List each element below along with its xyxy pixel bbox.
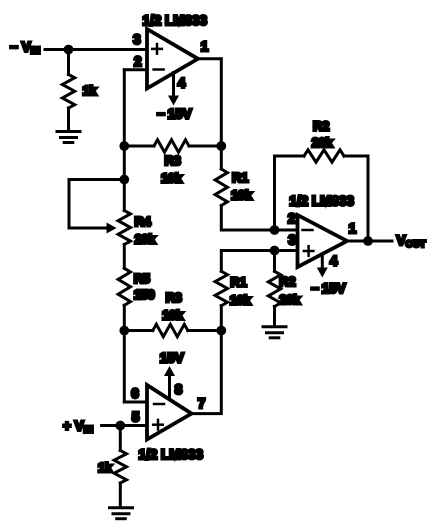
ground (top 1k) — [57, 132, 80, 143]
resistor R1 (lower) — [215, 271, 227, 305]
pin 4 label (right) — [330, 254, 338, 269]
resistor R3 (bottom) — [124, 324, 221, 336]
label 10k (R1 lower) — [230, 293, 252, 308]
svg-text:− VIN: − VIN — [10, 40, 40, 57]
label 15V — [160, 351, 184, 366]
label R5 — [134, 271, 150, 286]
junction output — [363, 236, 373, 246]
svg-text:5: 5 — [132, 410, 140, 425]
op-amp A3 triangle — [147, 385, 192, 440]
label 1/2 LM833 (top) — [143, 13, 208, 28]
op-amp A1 minus input — [154, 68, 164, 71]
wire -VIN to pin 3 — [45, 48, 147, 51]
resistor R5 — [118, 268, 130, 305]
wire R1 to pin 2 (right) — [221, 206, 297, 231]
pin 7 label — [198, 396, 206, 411]
svg-text:20k: 20k — [135, 232, 157, 247]
wire pin 2 (top) — [124, 68, 147, 71]
svg-text:10k: 10k — [231, 188, 253, 203]
label R3 (top) — [165, 153, 181, 168]
junction left/R3 (top) — [119, 141, 129, 151]
label -15V (right) — [311, 281, 346, 296]
svg-text:R1: R1 — [232, 170, 248, 185]
wire left column lower — [123, 305, 126, 402]
op-amp A3 minus input — [154, 403, 164, 406]
wire R4-R5 — [123, 245, 126, 269]
svg-text:1/2 LM833: 1/2 LM833 — [143, 13, 208, 28]
svg-text:1: 1 — [349, 221, 357, 236]
pin 3 label (right) — [288, 233, 296, 248]
label R3 (bottom) — [166, 290, 182, 305]
ground (bottom 1k) — [110, 508, 133, 519]
label R4 — [135, 214, 152, 229]
label 1/2 LM833 (right) — [289, 194, 354, 209]
svg-text:1/2 LM833: 1/2 LM833 — [139, 447, 204, 462]
pin 6 label — [131, 386, 139, 401]
pin 8 label — [175, 382, 183, 397]
wire +VIN to pin 5 — [102, 424, 147, 427]
label -15V (top) — [157, 107, 192, 122]
resistor R3 (top) — [124, 140, 221, 152]
svg-text:10k: 10k — [162, 308, 184, 323]
pin 4 supply arrow (top) — [168, 73, 179, 106]
junction +VIN/R-1k — [115, 421, 125, 431]
svg-text:2: 2 — [134, 54, 142, 69]
label 10k (R1 upper) — [231, 188, 253, 203]
svg-text:3: 3 — [133, 32, 141, 47]
wiper arrow — [107, 223, 117, 234]
op-amp A2 triangle — [298, 215, 348, 267]
label 1k (bottom) — [98, 460, 113, 475]
ground (R2) — [263, 327, 286, 338]
svg-text:10k: 10k — [161, 171, 183, 186]
node VOUT — [397, 233, 426, 250]
label R1 (upper) — [232, 170, 248, 185]
feedback loop wire — [275, 150, 369, 241]
svg-text:8: 8 — [175, 382, 183, 397]
junction R3/column (top right) — [216, 141, 226, 151]
svg-text:− 15V: − 15V — [311, 281, 346, 296]
node +VIN — [63, 419, 93, 436]
svg-text:20k: 20k — [279, 292, 301, 307]
pin 1 label (right) — [349, 221, 357, 236]
resistor 1k (top) — [62, 50, 74, 132]
wire R1 lower to junction — [220, 306, 223, 331]
svg-text:R4: R4 — [135, 214, 152, 229]
svg-text:R3: R3 — [166, 290, 182, 305]
op-amp A2 plus input — [304, 246, 314, 256]
label 20k (ground leg) — [279, 292, 301, 307]
svg-text:2: 2 — [288, 211, 296, 226]
pin 2 label — [134, 54, 142, 69]
op-amp A2 minus input — [303, 229, 313, 232]
junction -VIN/R-1k — [64, 45, 74, 55]
junction pin 3 (right) — [270, 246, 280, 256]
pin 4 supply arrow (right) — [317, 255, 328, 278]
label 1k (top) — [83, 83, 98, 98]
resistor 1k (bottom) — [114, 426, 126, 508]
svg-text:R1: R1 — [230, 275, 246, 290]
label 150 (R5) — [134, 287, 155, 302]
pin 2 label (right) — [288, 211, 296, 226]
svg-text:15V: 15V — [160, 351, 184, 366]
resistor R2 (to ground) — [268, 251, 280, 327]
svg-text:R2: R2 — [313, 119, 329, 134]
wire pin 3 row — [221, 251, 297, 272]
pin 4 label (top) — [178, 76, 186, 91]
svg-text:− 15V: − 15V — [157, 107, 192, 122]
svg-text:10k: 10k — [230, 293, 252, 308]
junction left/R3 (bottom) — [119, 326, 129, 336]
wire A1 output — [198, 59, 221, 169]
node -VIN — [10, 40, 40, 57]
svg-text:VOUT: VOUT — [397, 233, 426, 250]
op-amp A3 plus input — [153, 420, 163, 430]
svg-text:R3: R3 — [165, 153, 181, 168]
label 1/2 LM833 (bottom) — [139, 447, 204, 462]
svg-text:3: 3 — [288, 233, 296, 248]
junction wiper loop — [119, 175, 129, 185]
svg-text:1k: 1k — [98, 460, 113, 475]
pin 1 label (top) — [201, 39, 209, 54]
op-amp A1 plus input — [152, 44, 162, 54]
svg-text:4: 4 — [330, 254, 338, 269]
potentiometer R4 — [118, 211, 130, 245]
resistor R1 (upper) — [215, 169, 227, 206]
svg-text:150: 150 — [134, 287, 155, 302]
svg-text:7: 7 — [198, 396, 206, 411]
svg-text:1k: 1k — [83, 83, 98, 98]
label R2 (feedback) — [313, 119, 329, 134]
label 10k (R3 bottom) — [162, 308, 184, 323]
svg-text:6: 6 — [131, 386, 139, 401]
wire left column upper — [123, 70, 126, 211]
label 10k (R3 top) — [161, 171, 183, 186]
pin 5 label — [132, 410, 140, 425]
op-amp A1 triangle — [147, 29, 198, 89]
svg-text:1: 1 — [201, 39, 209, 54]
wire A2 output — [347, 240, 392, 243]
svg-text:+ VIN: + VIN — [63, 419, 93, 436]
pin 3 label — [133, 32, 141, 47]
wire pin 6 — [124, 401, 147, 404]
svg-text:4: 4 — [178, 76, 186, 91]
svg-text:20k: 20k — [312, 135, 334, 150]
wiper loop wire — [69, 180, 124, 229]
label 20k (feedback) — [312, 135, 334, 150]
label R2 (ground leg) — [279, 274, 295, 289]
wire A3 output — [192, 331, 222, 414]
junction R3/column (bottom right) — [216, 326, 226, 336]
svg-text:R2: R2 — [279, 274, 295, 289]
svg-text:R5: R5 — [134, 271, 150, 286]
svg-text:1/2 LM833: 1/2 LM833 — [289, 194, 354, 209]
label R1 (lower) — [230, 275, 246, 290]
junction pin 2 (right) — [270, 225, 280, 235]
pin 8 supply arrow — [164, 366, 175, 399]
label 20k (R4) — [135, 232, 157, 247]
